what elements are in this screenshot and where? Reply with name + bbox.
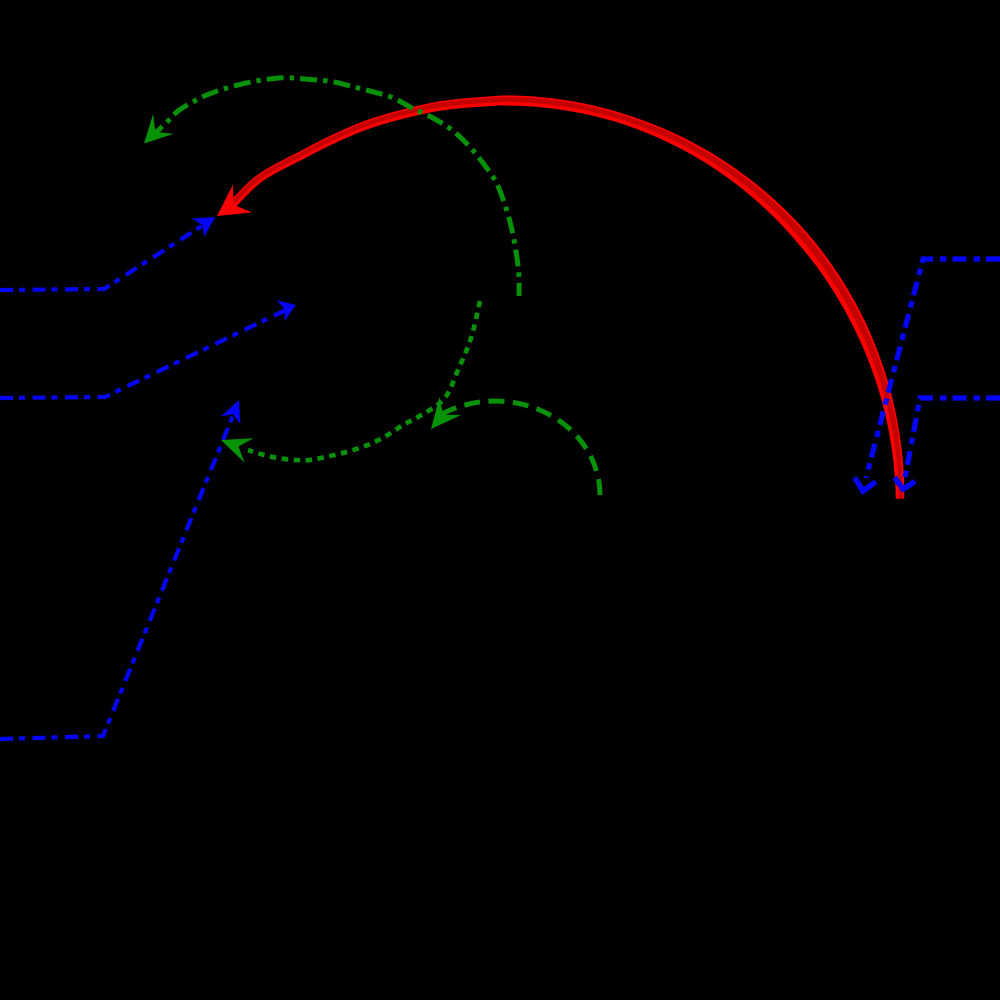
- blue leader arrow 1 shaft (from left edge y=290): [0, 220, 211, 290]
- blue leader arrow 5 shaft (from right edge y=398): [905, 398, 1000, 478]
- blue arrow 1 head: [192, 217, 215, 237]
- blue arrow 4 head (V): [855, 478, 876, 491]
- green arc 3 head: [221, 438, 254, 462]
- red arrowhead: [217, 185, 252, 217]
- green dash-dot arc 1 (top left): [150, 78, 519, 296]
- blue leader arrow 4 shaft (from right edge y=259): [866, 259, 1000, 478]
- blue arrow 2 head: [277, 300, 296, 321]
- red arc dark core: [231, 97, 903, 499]
- red arc body: [230, 95, 904, 498]
- blue leader arrow 3 shaft (from left edge y=739): [0, 413, 234, 739]
- green arc 2 head: [431, 397, 461, 429]
- green dotted arc 3 (centre-left): [248, 301, 480, 460]
- green long-dash arc 2 (centre): [437, 401, 600, 495]
- blue arrow 3 head: [221, 400, 241, 424]
- blue leader arrow 2 shaft (from left edge y=398): [0, 308, 290, 398]
- blue arrow 5 head (V): [895, 477, 916, 489]
- green arc 1 head: [144, 114, 173, 144]
